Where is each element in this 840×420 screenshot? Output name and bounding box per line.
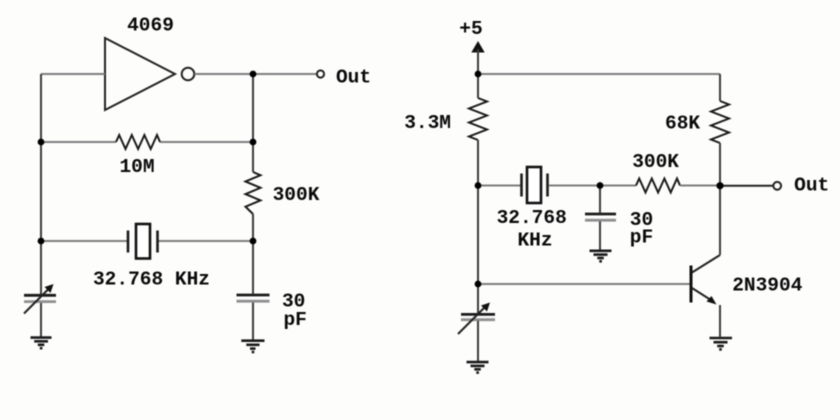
svg-text:32.768 KHz: 32.768 KHz	[93, 269, 210, 291]
svg-text:+5: +5	[459, 18, 482, 40]
svg-text:pF: pF	[283, 309, 306, 331]
svg-text:32.768: 32.768	[497, 207, 567, 229]
svg-text:KHz: KHz	[517, 230, 552, 252]
svg-text:2N3904: 2N3904	[732, 275, 803, 297]
svg-text:300K: 300K	[273, 184, 320, 206]
svg-text:Out: Out	[336, 67, 371, 89]
svg-text:300K: 300K	[632, 151, 679, 173]
svg-text:4069: 4069	[127, 15, 174, 37]
svg-text:pF: pF	[630, 227, 653, 249]
svg-text:3.3M: 3.3M	[404, 112, 451, 134]
svg-text:68K: 68K	[665, 113, 700, 135]
svg-text:10M: 10M	[119, 156, 154, 178]
svg-text:Out: Out	[794, 174, 829, 196]
